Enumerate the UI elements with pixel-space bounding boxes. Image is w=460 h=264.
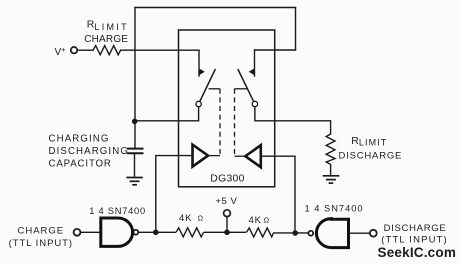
switch S1 input pole wire [198,50,200,76]
control line S2 dashed [234,89,236,156]
wire right bus [295,8,297,51]
wire left bus [134,8,136,149]
terminal V+ [71,47,77,53]
wire driver U1b input [261,156,295,233]
wire top bus [135,7,296,9]
switch S1 arrowhead [199,68,205,75]
terminal CHARGE input [74,229,81,236]
wire S1 contact down [198,107,200,121]
wire R3 to +5V node [204,231,246,233]
gate U2b 1/4 SN7400 (mirrored) [316,219,348,248]
terminal DISCHARGE input [370,230,377,237]
resistor R1 R_LIMIT CHARGE [93,46,121,55]
gate U2a output bubble [133,230,138,235]
svg-text:Ω: Ω [264,216,270,225]
switch S2 arrowhead [249,68,255,75]
svg-text:4K: 4K [179,213,192,224]
gate U2b output bubble [308,231,313,236]
wire S2 top to right bus [255,49,296,51]
bottom rail wires [81,217,370,237]
svg-text:1 4 SN7400: 1 4 SN7400 [89,206,146,216]
switch S2 blade [238,69,254,101]
wire capacitor to ground [134,154,136,177]
wire resistor to S1 [121,49,199,51]
control line S1 corner [209,88,220,90]
svg-text:1 4 SN7400: 1 4 SN7400 [305,203,364,213]
wire driver U1a input [156,156,193,233]
wire V+ to switch S1 [77,49,93,51]
wire driver U1a output to dashed [208,155,220,157]
resistor R2 R_LIMIT DISCHARGE (vertical) [326,134,335,176]
terminal +5V [224,210,231,217]
svg-text:DISCHARGE: DISCHARGE [339,151,403,162]
driver U1a triangle [193,145,209,167]
wire R4 to gate U2b [274,232,309,234]
svg-text:SeekIC.com: SeekIC.com [378,245,457,260]
driver U1b triangle [245,145,260,167]
svg-text:DG300: DG300 [210,174,244,185]
svg-text:CHARGE: CHARGE [84,34,128,45]
ground left [126,178,143,185]
control line S1 dashed [219,89,221,156]
wire +5V terminal down [226,217,228,233]
wire S2 contact down [254,107,256,121]
junction node driver A input [153,230,159,236]
svg-text:Ω: Ω [198,214,204,223]
wire capacitor node to S1 output [135,120,199,122]
svg-text:+5 V: +5 V [216,196,238,207]
svg-text:DISCHARGING: DISCHARGING [49,146,129,157]
DG300 package box U1 [179,30,275,187]
capacitor C1 plates [127,148,144,150]
svg-text:CHARGE: CHARGE [18,225,65,236]
wire gate U2a output to resistor [138,231,176,233]
switch S2 contact circle [252,101,257,106]
svg-text:CHARGING: CHARGING [49,133,110,144]
wire driver U1b output to dashed [235,155,246,157]
junction node capacitor top [132,119,138,125]
svg-text:RLIMIT: RLIMIT [351,135,387,148]
svg-text:CAPACITOR: CAPACITOR [49,158,112,169]
junction node +5V [224,230,230,236]
resistor R3 4K [176,228,204,237]
wire charge terminal to gate U2a [81,231,100,233]
wire gate U2b to discharge terminal [349,232,371,234]
switch S2 input pole wire [254,50,256,76]
gate U2a 1/4 SN7400 [101,218,133,246]
junction node driver B input [292,230,298,236]
control line S2 corner [235,88,248,90]
svg-text:DISCHARGE: DISCHARGE [384,223,447,234]
wire S2 output to R_discharge [255,121,331,134]
svg-text:(TTL INPUT): (TTL INPUT) [9,238,73,249]
ground right [323,176,340,183]
switch S1 contact circle [196,101,201,106]
svg-text:4K: 4K [249,215,262,226]
switch S1 blade [200,69,216,101]
resistor R4 4K [247,228,274,237]
